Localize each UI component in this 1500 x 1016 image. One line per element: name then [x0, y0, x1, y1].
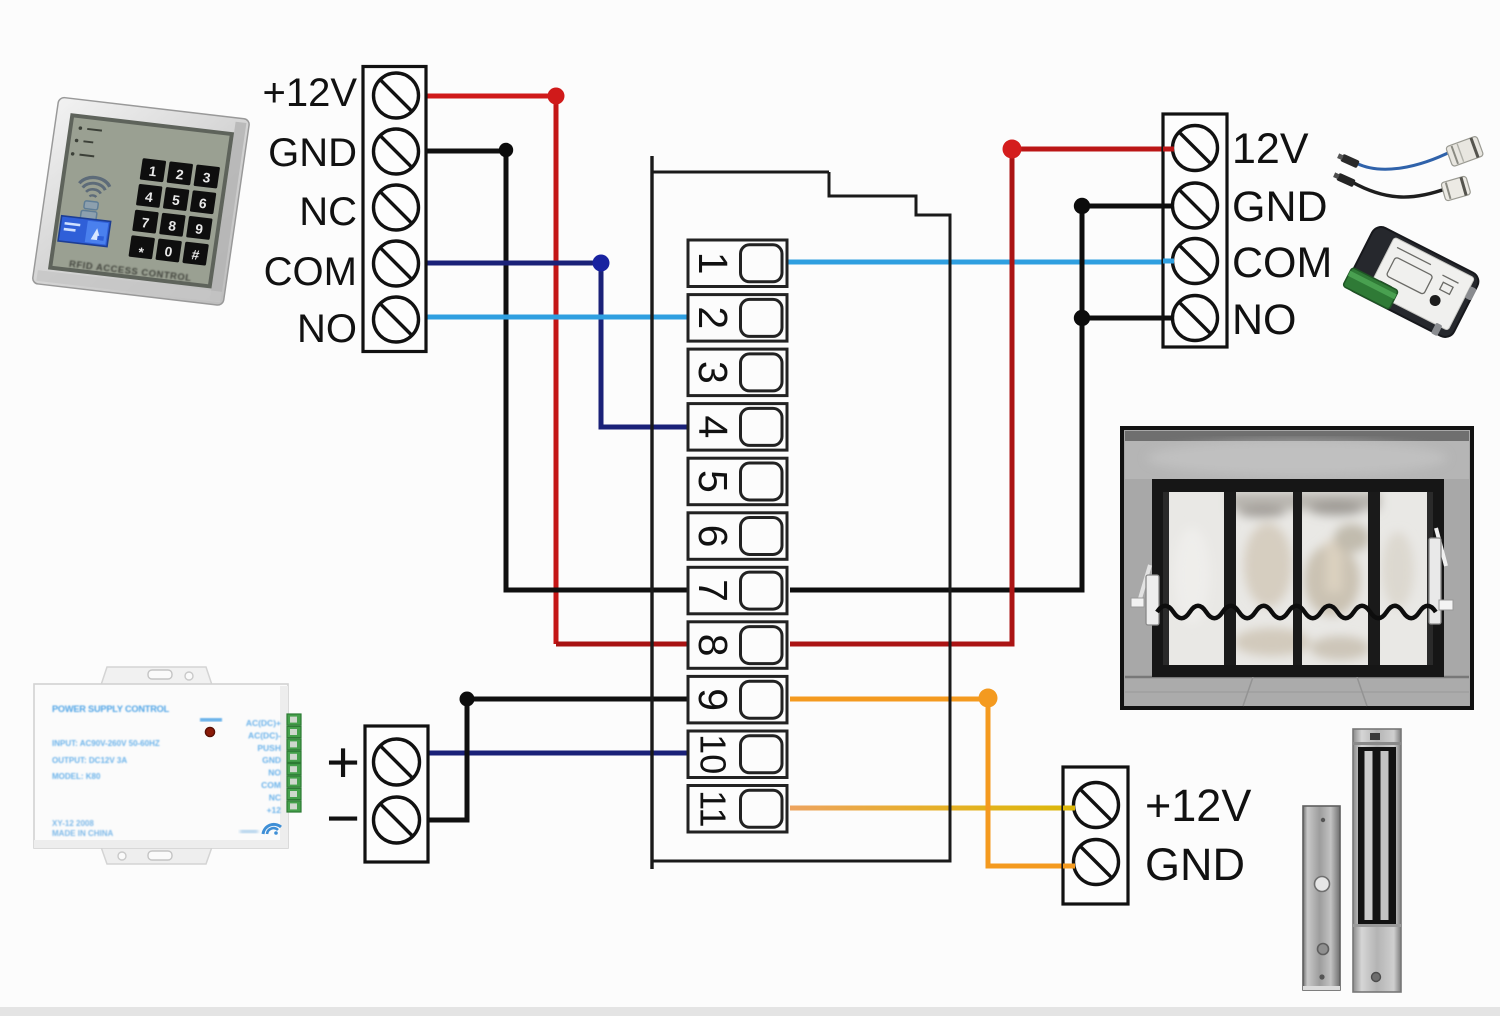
svg-text:COM: COM [1232, 239, 1332, 287]
screw GND [374, 129, 419, 174]
svg-text:XY-12 2008: XY-12 2008 [52, 819, 94, 828]
svg-text:COM: COM [264, 250, 357, 294]
terminal block TB4 [1063, 767, 1128, 904]
svg-text:GND: GND [262, 755, 281, 765]
screw COM [374, 241, 419, 286]
svg-text:6: 6 [690, 525, 736, 548]
svg-text:AC(DC)-: AC(DC)- [248, 730, 281, 740]
svg-text:10: 10 [693, 734, 734, 774]
svg-text:NO: NO [268, 768, 281, 778]
svg-text:INPUT: AC90V-260V 50-60HZ: INPUT: AC90V-260V 50-60HZ [52, 739, 160, 748]
svg-text:PUSH: PUSH [257, 743, 281, 753]
door hardware right [1429, 528, 1453, 624]
wire gold terminal 11 to +12V lock [790, 806, 1075, 811]
svg-text:2: 2 [690, 306, 736, 329]
terminal block TB3 [365, 726, 428, 862]
node orange junction [979, 689, 998, 708]
terminal block TB2 [1163, 114, 1227, 347]
terminal 1 [688, 240, 787, 287]
svg-text:9: 9 [690, 688, 736, 711]
controller box outline [652, 172, 950, 861]
svg-text:+12: +12 [267, 805, 282, 815]
svg-text:NO: NO [297, 307, 357, 351]
remote receiver module [1342, 223, 1483, 343]
terminal 11 [688, 786, 787, 833]
door hardware left [1131, 565, 1159, 625]
wire black GND vertical drop [506, 151, 688, 590]
screw minus [374, 797, 420, 843]
terminal 9 [688, 676, 787, 723]
wire black branch to NO right [1082, 316, 1174, 321]
terminal 6 [688, 513, 787, 560]
wire black terminal 7 to right block [790, 206, 1174, 590]
screw +12V lock [1074, 783, 1119, 828]
green terminal connector [287, 714, 301, 812]
svg-text:+12V: +12V [262, 71, 357, 115]
wire red top into 12V right [1012, 147, 1174, 152]
node red junction left [548, 88, 565, 105]
svg-text:COM: COM [261, 780, 281, 790]
node black junction minus [460, 692, 475, 707]
screw NC [374, 185, 419, 230]
wire controller left edge [650, 156, 653, 869]
svg-text:7: 7 [690, 579, 736, 602]
svg-text:MADE IN CHINA: MADE IN CHINA [52, 829, 114, 838]
terminal block TB1 [363, 67, 426, 352]
svg-text:AC(DC)+: AC(DC)+ [246, 718, 281, 728]
terminal 7 [688, 567, 787, 614]
svg-text:POWER SUPPLY CONTROL: POWER SUPPLY CONTROL [52, 704, 170, 714]
svg-text:8: 8 [690, 634, 736, 657]
wire lightblue terminal 1 to COM right [788, 260, 1174, 265]
wire orange terminal 9 [790, 699, 1075, 866]
terminal 2 [688, 295, 787, 342]
connector cable blue [1336, 136, 1483, 169]
wire lightblue NO keypad to terminal 2 [426, 315, 688, 320]
connector cable black [1332, 171, 1470, 201]
wire red +12V keypad horizontal [426, 94, 556, 99]
bottom edge band [0, 1007, 1500, 1016]
svg-text:5: 5 [690, 470, 736, 493]
screw NO right [1173, 296, 1218, 341]
node black junction NO right [1074, 310, 1090, 326]
svg-text:−: − [326, 786, 360, 851]
wire stub red into 12V right [1163, 147, 1174, 152]
svg-text:3: 3 [690, 361, 736, 384]
wire dark red terminal 8 to 12V right [790, 149, 1012, 644]
wire navy COM keypad [426, 263, 688, 427]
screw COM right [1173, 239, 1218, 284]
svg-text:4: 4 [690, 415, 736, 438]
terminal 5 [688, 458, 787, 505]
maglock armature bracket [1303, 806, 1340, 990]
wire stub gold into +12V lock [1063, 806, 1075, 811]
magnetic lock body [1353, 729, 1401, 992]
svg-text:1: 1 [690, 252, 736, 275]
svg-text:GND: GND [1145, 839, 1245, 890]
node red junction right [1003, 140, 1022, 159]
svg-text:NO: NO [1232, 296, 1297, 344]
wire stub black into NO right [1163, 316, 1174, 321]
wire black GND keypad horizontal [426, 149, 506, 154]
svg-text:+12V: +12V [1145, 780, 1251, 831]
svg-text:NC: NC [269, 792, 281, 802]
keypad access controller [32, 97, 250, 306]
wire navy plus terminal to terminal 10 [428, 751, 688, 756]
wire red into terminal 8 left [556, 642, 688, 647]
terminal 8 [688, 622, 787, 669]
terminal 3 [688, 349, 787, 396]
sliding glass door photo [1122, 428, 1472, 708]
terminal 4 [688, 404, 787, 451]
screw NO [374, 297, 419, 342]
svg-text:OUTPUT: DC12V 3A: OUTPUT: DC12V 3A [52, 756, 127, 765]
wire red vertical drop [554, 96, 559, 644]
power supply control unit [34, 667, 301, 864]
screw GND right [1173, 183, 1218, 228]
terminal 10 [688, 731, 787, 778]
power LED [205, 727, 214, 736]
node navy junction [593, 255, 610, 272]
screw plus [374, 739, 420, 785]
svg-text:GND: GND [268, 131, 357, 175]
svg-text:12V: 12V [1232, 125, 1309, 173]
node black junction left [499, 143, 513, 157]
svg-text:11: 11 [693, 790, 734, 827]
wire wavy cable across door [1157, 606, 1436, 619]
svg-text:GND: GND [1232, 183, 1328, 231]
screw 12V right [1173, 126, 1218, 171]
wire stub orange into GND lock [1063, 864, 1075, 869]
node black junction GND right [1074, 198, 1090, 214]
wire stub black into GND right [1163, 204, 1174, 209]
svg-text:NC: NC [299, 190, 357, 234]
svg-text:MODEL: K80: MODEL: K80 [52, 772, 101, 781]
wire black minus terminal to terminal 9 [428, 699, 688, 820]
wire stub lightblue into COM right [1163, 259, 1174, 264]
screw GND lock [1074, 840, 1119, 885]
screw +12V [374, 73, 419, 118]
